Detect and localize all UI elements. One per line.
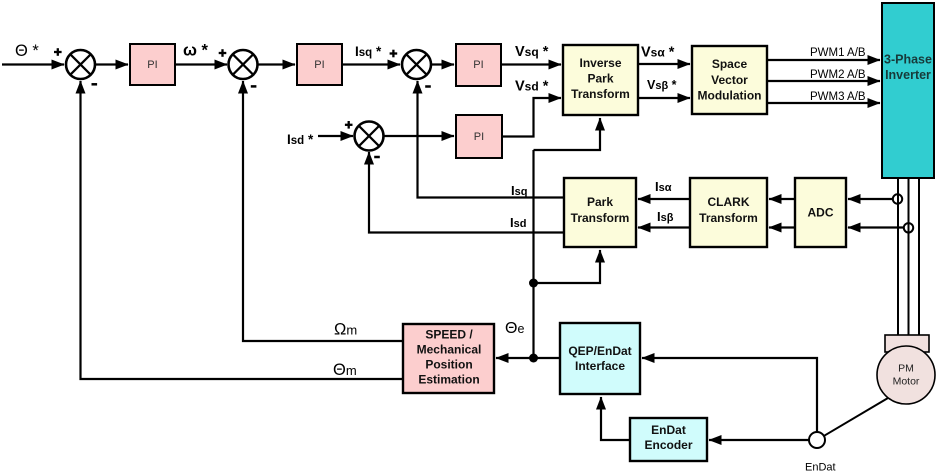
node plus sign J2 <box>219 49 227 57</box>
svg-text:CLARK: CLARK <box>708 195 750 209</box>
node EnDat connection circle <box>809 432 825 448</box>
svg-text:PI: PI <box>314 59 324 71</box>
wire Isd* input <box>318 135 353 137</box>
svg-text:PI: PI <box>474 131 484 143</box>
node theta* label <box>15 42 39 60</box>
svg-text:Transform: Transform <box>699 211 758 225</box>
svg-text:3-Phase: 3-Phase <box>884 53 932 67</box>
node current sensor B <box>904 223 913 232</box>
wire motor to EnDat node <box>824 398 888 436</box>
block PM Motor <box>877 346 935 404</box>
svg-text:Estimation: Estimation <box>418 373 479 387</box>
node junction dot theta-e upper <box>529 279 538 288</box>
wire theta-e to Inverse Park <box>534 118 601 150</box>
svg-text:Isβ: Isβ <box>657 209 674 224</box>
wire PI4 output to Inverse Park Vsd input <box>502 98 561 137</box>
svg-text:ω *: ω * <box>183 42 209 60</box>
block U9 EnDat Encoder <box>630 418 707 461</box>
svg-text:Encoder: Encoder <box>644 438 692 452</box>
node minus sign J4 <box>374 156 380 159</box>
wire Inverse Park Vsbeta to SVM <box>638 97 690 99</box>
node minus sign J2 <box>251 85 257 88</box>
svg-text:Vector: Vector <box>711 73 748 87</box>
svg-text:Isd: Isd <box>510 215 526 230</box>
wire theta* input <box>2 63 64 65</box>
wire sensor B to ADC <box>848 226 904 228</box>
block U2 Space Vector Modulation <box>692 46 767 114</box>
svg-text:PWM2 A/B: PWM2 A/B <box>810 69 866 81</box>
node Isbeta label <box>657 209 674 224</box>
node Vsalpha* label <box>641 45 675 61</box>
svg-text:Interface: Interface <box>575 359 625 373</box>
svg-text:Transform: Transform <box>571 87 630 101</box>
node Isd* label <box>287 132 314 147</box>
node Vsbeta* label <box>647 78 677 92</box>
block U5 CLARK Transform <box>690 178 767 247</box>
wire EnDat node to encoder <box>709 439 809 441</box>
wire sensor A to ADC <box>848 198 893 200</box>
svg-text:Θm: Θm <box>333 361 357 379</box>
svg-text:SPEED /: SPEED / <box>425 328 473 342</box>
node Vsq* label <box>515 44 549 60</box>
svg-text:Inverse: Inverse <box>579 56 621 70</box>
wire inverter phase C down <box>918 178 920 336</box>
wire inverter phase B down <box>908 178 910 336</box>
wire Omega-m SPEED to J2 <box>243 81 403 341</box>
svg-text:Θ *: Θ * <box>15 42 39 60</box>
node minus sign J3 <box>425 85 431 88</box>
wire PI1 to J2 <box>175 63 227 65</box>
wire encoder to QEP interface <box>601 397 630 440</box>
svg-text:Isq *: Isq * <box>355 44 382 59</box>
wire PWM3 <box>767 102 880 104</box>
node Vsd* label <box>515 79 549 95</box>
wire theta-e vertical trunk <box>532 150 534 358</box>
svg-text:Vsβ *: Vsβ * <box>647 78 677 92</box>
node PWM3 label <box>810 91 866 103</box>
svg-text:Vsα *: Vsα * <box>641 45 675 61</box>
node PWM2 label <box>810 69 866 81</box>
wire Inverse Park Vsalpha to SVM <box>638 63 690 65</box>
node Omega-m label <box>334 321 357 339</box>
block PI1 speed loop <box>130 44 175 85</box>
svg-text:Modulation: Modulation <box>698 89 762 103</box>
node omega* label <box>183 42 209 60</box>
wire CLARK to Park Isalpha <box>638 198 690 200</box>
block U6 Park Transform <box>564 178 636 247</box>
svg-text:PI: PI <box>473 59 483 71</box>
wire ADC to CLARK ch2 <box>769 226 795 228</box>
summing junction J4 <box>355 122 384 151</box>
node plus sign J4 <box>345 121 353 129</box>
svg-text:EnDat: EnDat <box>805 462 836 474</box>
node theta-e label <box>505 320 524 337</box>
node junction dot theta-e lower <box>529 354 538 363</box>
block PI4 d-axis <box>456 115 502 158</box>
wire inverter phase A down <box>897 178 899 336</box>
wire PWM1 <box>767 59 880 61</box>
svg-text:Park: Park <box>587 72 613 86</box>
svg-text:Space: Space <box>712 57 748 71</box>
svg-text:EnDat: EnDat <box>651 423 686 437</box>
svg-text:Position: Position <box>425 358 472 372</box>
svg-text:Vsq *: Vsq * <box>515 44 549 60</box>
block PI3 q-axis <box>456 44 501 86</box>
svg-text:Isq: Isq <box>511 183 527 198</box>
wire Isq feedback Park to J3 <box>418 81 565 198</box>
node minus sign J1 <box>92 83 98 86</box>
svg-text:Motor: Motor <box>893 376 920 388</box>
wire J4 to PI4 <box>385 135 455 137</box>
node Theta-m label <box>333 361 357 379</box>
svg-text:Mechanical: Mechanical <box>417 343 482 357</box>
svg-text:Vsd *: Vsd * <box>515 79 549 95</box>
block U3 3-Phase Inverter <box>882 3 934 178</box>
wire J1 to PI1 <box>96 63 128 65</box>
node Isq feedback label <box>511 183 527 198</box>
wire QEP to SPEED <box>496 357 560 359</box>
wire theta-e to Park <box>534 250 601 283</box>
node Isd feedback label <box>510 215 526 230</box>
block U4 ADC <box>795 178 846 247</box>
node plus sign J3 <box>390 50 398 58</box>
svg-text:ADC: ADC <box>808 206 834 220</box>
wire PI3 to Inverse Park <box>501 63 561 65</box>
block U8 QEP EnDat Interface <box>560 323 640 394</box>
node EnDat label <box>805 462 836 474</box>
node plus sign J1 <box>54 48 62 56</box>
summing junction J2 <box>229 50 258 79</box>
block U7 SPEED Mechanical Position Estimation <box>403 324 494 393</box>
svg-text:Inverter: Inverter <box>885 68 931 82</box>
node Isq* label <box>355 44 382 59</box>
summing junction J3 <box>402 50 431 79</box>
wire PI2 to J3 <box>342 63 400 65</box>
wire Isd feedback Park to J4 <box>369 152 564 233</box>
wire ADC to CLARK ch1 <box>769 198 795 200</box>
wire CLARK to Park Isbeta <box>638 226 690 228</box>
block U1 Inverse Park Transform <box>563 45 638 115</box>
node current sensor A <box>893 194 902 203</box>
svg-text:PM: PM <box>898 363 914 375</box>
svg-text:Ωm: Ωm <box>334 321 357 339</box>
wire Theta-m SPEED to J1 <box>81 81 404 379</box>
svg-text:Isα: Isα <box>655 179 672 194</box>
wire EnDat node to QEP interface <box>642 358 817 432</box>
svg-text:PWM1 A/B: PWM1 A/B <box>810 47 866 59</box>
svg-text:QEP/EnDat: QEP/EnDat <box>568 344 631 358</box>
block motor mount <box>885 335 929 352</box>
svg-text:Θe: Θe <box>505 320 524 337</box>
svg-text:PWM3 A/B: PWM3 A/B <box>810 91 866 103</box>
svg-text:Isd *: Isd * <box>287 132 314 147</box>
wire J2 to PI2 <box>259 63 296 65</box>
node Isalpha label <box>655 179 672 194</box>
wire J3 to PI3 <box>432 63 454 65</box>
summing junction J1 <box>66 50 95 79</box>
svg-text:PI: PI <box>147 59 157 71</box>
node PWM1 label <box>810 47 866 59</box>
wire PWM2 <box>767 80 880 82</box>
svg-text:Park: Park <box>587 195 613 209</box>
svg-text:Transform: Transform <box>571 211 630 225</box>
block PI2 current q loop <box>297 44 342 85</box>
